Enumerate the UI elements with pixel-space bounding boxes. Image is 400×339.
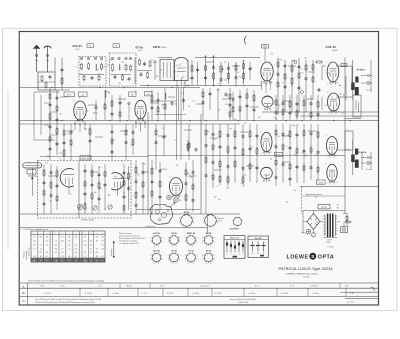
svg-text:1k: 1k [97, 212, 99, 214]
svg-text:C 30 25µ: C 30 25µ [312, 293, 319, 295]
svg-text:Abgleich ZF: Abgleich ZF [230, 237, 239, 240]
svg-text:Neu ein: Neu ein [366, 169, 371, 171]
svg-text:a: a [371, 291, 372, 293]
svg-text:9: 9 [196, 259, 197, 261]
svg-text:3: 3 [150, 255, 151, 257]
speaker terminals ATR 636 A [357, 151, 373, 171]
label box F2 [113, 44, 120, 47]
svg-text:1 T 32234: 1 T 32234 [327, 247, 334, 249]
V6 anode wire to OT [322, 97, 352, 110]
oscillator section x134-200 y160-214 [135, 160, 195, 214]
EM80 pin wires [177, 81, 185, 121]
svg-text:50µ: 50µ [187, 173, 190, 175]
svg-text:8µ: 8µ [183, 77, 185, 79]
svg-text:PATRICIA-LUXUS Type 32234: PATRICIA-LUXUS Type 32234 [279, 267, 333, 271]
left component chain R10 C12 [44, 88, 59, 160]
AF coupling x240-258 y90-120 [239, 88, 256, 120]
svg-text:0,25: 0,25 [327, 72, 330, 74]
svg-text:50µ: 50µ [218, 199, 221, 201]
svg-text:0,25: 0,25 [225, 104, 228, 106]
svg-text:100p: 100p [224, 80, 228, 82]
svg-text:4,7n: 4,7n [130, 144, 133, 146]
svg-text:2,2k: 2,2k [67, 134, 70, 136]
svg-text:220: 220 [214, 197, 217, 199]
svg-text:220: 220 [134, 91, 137, 93]
svg-text:V 25 0,1 µF: V 25 0,1 µF [200, 286, 209, 288]
tube socket bottom view EZ 80 [202, 251, 215, 266]
svg-text:6: 6 [213, 227, 214, 229]
svg-text:3: 3 [168, 255, 169, 257]
svg-text:4: 4 [206, 263, 207, 265]
svg-text:Gehäuse Rückwand Knöpfe: Gehäuse Rückwand Knöpfe Skala [230, 299, 256, 301]
svg-text:Abgl. AM: Abgl. AM [255, 237, 262, 240]
svg-text:1k: 1k [343, 94, 345, 96]
svg-text:ECC 85: ECC 85 [153, 251, 160, 253]
svg-text:1n: 1n [273, 117, 275, 119]
svg-text:12k: 12k [341, 112, 344, 114]
svg-text:9: 9 [196, 242, 197, 244]
svg-text:70p: 70p [234, 119, 237, 121]
svg-text:2,2k: 2,2k [190, 177, 193, 179]
long vertical x362 [361, 152, 363, 170]
svg-text:Ströme mA: Ströme mA [28, 247, 31, 256]
volume potentiometer P1 [220, 62, 224, 84]
tube V8 EL84 right lower [327, 164, 337, 183]
svg-text:1: 1 [168, 259, 169, 261]
svg-text:3: 3 [185, 237, 186, 239]
output transformer OT2 [338, 140, 359, 175]
svg-text:86: 86 [68, 241, 70, 243]
FM dipole antenna [44, 46, 51, 72]
detector diode loads x203-232 y88-120 [202, 88, 235, 120]
svg-text:0,7: 0,7 [84, 252, 86, 254]
svg-text:9: 9 [193, 223, 194, 225]
svg-text:C 20 10n: C 20 10n [248, 293, 255, 295]
svg-text:4,7n: 4,7n [207, 131, 210, 133]
antenna input box [38, 72, 55, 90]
svg-text:560: 560 [305, 156, 308, 158]
svg-text:9: 9 [214, 242, 215, 244]
svg-text:0,7: 0,7 [61, 248, 63, 250]
svg-text:3: 3 [179, 217, 180, 219]
svg-text:47k: 47k [174, 140, 177, 142]
tube socket bottom view EABC 80 [185, 232, 198, 248]
wire vertical x55 [54, 58, 56, 73]
V3 top cap wire [259, 48, 273, 62]
label box F1 [87, 44, 94, 47]
svg-text:1,2: 1,2 [61, 237, 63, 239]
svg-text:215: 215 [39, 252, 42, 254]
svg-text:gez. 4.60: gez. 4.60 [347, 302, 354, 304]
svg-text:0,1: 0,1 [104, 209, 106, 211]
tube socket bottom view EL 84 [168, 250, 181, 266]
svg-text:0,25: 0,25 [250, 147, 253, 149]
svg-text:86: 86 [68, 256, 70, 258]
short connector links [48, 62, 316, 178]
dial cord arc [244, 36, 246, 45]
svg-text:50µ: 50µ [59, 153, 62, 155]
label box 0.54 [79, 92, 88, 97]
svg-text:1: 1 [202, 259, 203, 261]
label box ECC 85 [80, 156, 91, 160]
power rail y210.5 [303, 210, 345, 212]
svg-text:86: 86 [75, 252, 77, 254]
svg-text:EC92: EC92 [276, 155, 281, 157]
svg-text:5n: 5n [76, 67, 78, 69]
svg-text:7: 7 [196, 237, 197, 239]
svg-text:0,7: 0,7 [75, 256, 77, 258]
svg-text:560: 560 [176, 165, 179, 167]
svg-text:47k: 47k [109, 60, 112, 62]
coupling network C7 R5 [135, 58, 156, 85]
F2 trimmer capacitors [111, 57, 131, 59]
svg-text:30p: 30p [301, 232, 304, 234]
svg-text:NT52: NT52 [319, 182, 323, 184]
svg-text:T 32234 1: T 32234 1 [303, 276, 310, 278]
IF transformer dashed box F1 [79, 57, 106, 87]
svg-text:F1: F1 [89, 45, 91, 47]
anode load resistors right of V3 [277, 58, 287, 116]
svg-text:25p: 25p [294, 154, 297, 156]
label box D1 [341, 64, 347, 67]
svg-text:7: 7 [214, 255, 215, 257]
tube V12 ECC85 FM half [60, 169, 74, 193]
phase splitter parts x292-308 [291, 58, 308, 112]
tuner components col2 [84, 164, 107, 214]
svg-text:86: 86 [46, 237, 48, 239]
label box NT 52 SB [318, 205, 330, 209]
row B content [44, 288, 354, 296]
svg-text:6: 6 [193, 263, 194, 265]
svg-text:215: 215 [61, 256, 64, 258]
tuner components col3 [123, 164, 131, 214]
svg-text:6: 6 [189, 227, 190, 229]
svg-text:7: 7 [179, 237, 180, 239]
svg-text:1 Stk: 1 Stk [40, 285, 44, 288]
svg-text:ECH 81: ECH 81 [153, 233, 160, 235]
svg-text:215: 215 [55, 244, 58, 246]
AGC arrows [205, 56, 215, 61]
svg-text:1: 1 [179, 223, 180, 225]
scan wash [19, 31, 379, 305]
tube socket bottom view ECC 85 [150, 251, 163, 266]
mid right chains x276-318 y95-120 [275, 95, 320, 120]
svg-text:215: 215 [101, 248, 104, 250]
svg-text:9: 9 [214, 259, 215, 261]
svg-text:0,1: 0,1 [182, 93, 184, 95]
svg-text:70p: 70p [94, 192, 97, 194]
speaker matching box lower [345, 131, 353, 150]
table footer labels dark [33, 259, 104, 262]
svg-text:Netztrafo-Anschlüsse: Netztrafo-Anschlüsse [306, 193, 322, 196]
detector column R21 [204, 60, 207, 86]
svg-text:3: 3 [202, 237, 203, 239]
svg-text:215: 215 [33, 241, 36, 243]
V3 pin circles [261, 82, 272, 93]
long vertical feed x237 [236, 58, 238, 131]
svg-text:8µ: 8µ [165, 205, 167, 207]
svg-text:3: 3 [150, 237, 151, 239]
svg-text:Skala: Skala [218, 220, 222, 222]
svg-text:30p: 30p [86, 111, 89, 113]
svg-text:Alle Spannungen: Alle Spannungen [119, 232, 132, 235]
svg-text:M1400: M1400 [93, 113, 98, 115]
svg-text:OPTA: OPTA [318, 254, 334, 260]
electrolytic capacitors C90 C91 [306, 229, 315, 237]
AM antenna [33, 45, 40, 72]
svg-text:2,2k: 2,2k [304, 58, 307, 60]
svg-text:70p: 70p [286, 202, 289, 204]
label box NT 52 [317, 180, 326, 184]
svg-text:4,7n: 4,7n [293, 190, 296, 192]
svg-text:3: 3 [168, 237, 169, 239]
svg-text:S 12: S 12 [255, 286, 259, 288]
svg-text:86: 86 [90, 244, 92, 246]
svg-text:R 30: R 30 [350, 293, 354, 295]
svg-text:250: 250 [271, 54, 274, 56]
svg-text:25p: 25p [315, 196, 318, 198]
svg-text:0,7: 0,7 [46, 256, 48, 258]
svg-text:1,2: 1,2 [33, 237, 35, 239]
svg-text:25p: 25p [284, 86, 287, 88]
svg-text:C 7 5n: C 7 5n [142, 293, 147, 295]
IF transformer dashed box F2 [110, 53, 137, 86]
wire rail y156.5 left half [40, 156, 148, 158]
tube socket bottom view ECH 81 [150, 233, 163, 248]
svg-text:215: 215 [84, 244, 87, 246]
speaker matching box upper [345, 95, 361, 119]
svg-text:215: 215 [90, 241, 93, 243]
svg-text:EF 89: EF 89 [171, 233, 176, 235]
mid left chains below rail y128-160 x64-140 [63, 124, 135, 160]
svg-text:1n: 1n [119, 69, 121, 71]
schematic border frame [19, 32, 378, 306]
svg-text:5n: 5n [305, 153, 307, 155]
svg-text:R 15 1M: R 15 1M [215, 293, 222, 295]
wire rail y227.5 [20, 227, 207, 229]
svg-text:220: 220 [275, 119, 278, 121]
svg-text:86: 86 [46, 252, 48, 254]
svg-text:100p: 100p [107, 194, 111, 196]
svg-text:30p: 30p [213, 139, 216, 141]
svg-text:gepr.: gepr. [345, 285, 349, 288]
voltage table [31, 231, 105, 262]
svg-text:47k: 47k [114, 176, 117, 178]
svg-text:4: 4 [154, 263, 155, 265]
svg-text:0,7: 0,7 [101, 256, 103, 258]
svg-text:ECC 85: ECC 85 [82, 158, 90, 160]
svg-text:4: 4 [154, 246, 155, 248]
svg-text:3: 3 [185, 255, 186, 257]
svg-text:9: 9 [162, 259, 163, 261]
svg-text:0,25: 0,25 [173, 71, 176, 73]
svg-text:10k: 10k [337, 205, 340, 207]
svg-text:12k: 12k [47, 156, 50, 158]
svg-text:70p: 70p [239, 76, 242, 78]
svg-text:215: 215 [75, 248, 78, 250]
svg-text:4: 4 [206, 246, 207, 248]
dial lamps [167, 195, 179, 202]
label box EC 92 [275, 153, 283, 157]
svg-text:86: 86 [34, 244, 36, 246]
svg-text:220: 220 [103, 67, 106, 69]
tube socket bottom view EL 84 [185, 250, 198, 266]
svg-text:3: 3 [203, 217, 204, 219]
detector column R22 [212, 60, 215, 86]
svg-text:560: 560 [160, 70, 163, 72]
svg-text:0,7: 0,7 [68, 244, 70, 246]
label box ZF1 [64, 92, 75, 97]
svg-text:30p: 30p [229, 128, 232, 130]
svg-text:8µ: 8µ [293, 60, 295, 62]
long vertical x345 [344, 58, 346, 215]
bottom right corner marks [340, 287, 379, 303]
IF out components x150-162 [151, 90, 160, 120]
svg-text:1: 1 [202, 242, 203, 244]
svg-text:9: 9 [179, 242, 180, 244]
power section label line [302, 193, 345, 196]
svg-text:5n: 5n [242, 81, 244, 83]
svg-text:4 × 8: 4 × 8 [290, 285, 294, 288]
svg-text:R 2 0,1M: R 2 0,1M [85, 293, 92, 295]
svg-text:2,2k: 2,2k [244, 175, 247, 177]
svg-text:30p: 30p [150, 59, 153, 61]
alignment box 1 Abgleich ZF [224, 228, 245, 259]
tube V9 ECH81 AM oscillator [170, 178, 183, 198]
svg-text:0,1: 0,1 [218, 83, 220, 85]
svg-text:6: 6 [193, 246, 194, 248]
svg-text:8µ: 8µ [316, 222, 318, 224]
svg-text:0,7: 0,7 [33, 248, 35, 250]
tuner inner dashed divider [78, 161, 80, 219]
svg-text:100p: 100p [292, 125, 296, 127]
right channel chains x276-320 y124-210 [275, 124, 320, 186]
svg-text:215: 215 [68, 237, 71, 239]
svg-text:2×EL 84: 2×EL 84 [326, 45, 337, 49]
svg-text:1,2: 1,2 [55, 241, 57, 243]
svg-text:2,2k: 2,2k [79, 74, 82, 76]
svg-text:1: 1 [185, 242, 186, 244]
tube socket bottom view [203, 214, 218, 229]
svg-text:1,2: 1,2 [101, 244, 103, 246]
svg-text:1,2: 1,2 [75, 244, 77, 246]
table header ticks [34, 233, 103, 235]
screen bypass network [119, 95, 122, 122]
svg-text:1,2: 1,2 [61, 252, 63, 254]
svg-text:4: 4 [183, 227, 184, 229]
junction dots on rails [51, 85, 350, 121]
svg-text:215: 215 [61, 241, 64, 243]
svg-text:1,2: 1,2 [46, 244, 48, 246]
AGC loop wires left [34, 92, 60, 140]
tone network R30 [243, 60, 252, 84]
svg-text:S: S [311, 254, 314, 259]
svg-text:560: 560 [336, 208, 339, 210]
svg-text:EM 80: EM 80 [184, 212, 189, 214]
svg-text:9: 9 [162, 242, 163, 244]
svg-text:C 100: C 100 [60, 286, 65, 288]
wire rail y116 right half [300, 115, 378, 117]
svg-text:4,7n: 4,7n [45, 163, 48, 165]
svg-text:Trafo 52/8 Drossel D5 Elko: Trafo 52/8 Drossel D5 Elko 50+50µF Poti … [35, 298, 102, 301]
ratio detector coils x163-200 [150, 88, 198, 160]
svg-text:25p: 25p [183, 83, 186, 85]
svg-text:Beim Ersatzteil auf die oben B: Beim Ersatzteil auf die oben Bezeichnung… [29, 279, 105, 282]
row A content [40, 283, 349, 288]
svg-text:1n: 1n [301, 69, 303, 71]
svg-text:10k: 10k [179, 200, 182, 202]
ferrite rod antenna [23, 163, 42, 196]
svg-text:4: 4 [188, 246, 189, 248]
svg-text:10k: 10k [98, 73, 101, 75]
svg-text:C 12 50µ: C 12 50µ [192, 293, 199, 295]
svg-text:0,7: 0,7 [90, 248, 92, 250]
svg-text:E-Satz 32234: E-Satz 32234 [238, 301, 248, 304]
wire top bus to EM80 [158, 57, 172, 59]
svg-text:215: 215 [33, 256, 36, 258]
svg-text:5n: 5n [122, 162, 124, 164]
coil L5 between tubes [104, 90, 106, 120]
svg-text:1n: 1n [307, 194, 309, 196]
svg-text:47k: 47k [120, 102, 123, 104]
svg-text:UKW-Box 6 M 52: UKW-Box 6 M 52 [81, 220, 94, 222]
neutralizing cap C15 [93, 100, 98, 120]
grid stopper R12 [111, 95, 114, 120]
svg-text:50 Hz: 50 Hz [326, 242, 330, 244]
svg-text:10k: 10k [192, 100, 195, 102]
label box F3 [129, 92, 137, 96]
antenna matching parts [55, 58, 70, 91]
svg-text:215: 215 [96, 237, 99, 239]
svg-text:1,2: 1,2 [90, 252, 92, 254]
svg-text:86: 86 [102, 237, 104, 239]
tuner components col1 [43, 164, 59, 214]
svg-text:0,25: 0,25 [69, 193, 72, 195]
svg-text:8µ: 8µ [188, 106, 190, 108]
tube V13 AM oscillator in tuner [111, 173, 124, 196]
svg-text:100p: 100p [226, 188, 230, 190]
tube socket bottom view EF 89 [168, 233, 181, 248]
svg-text:12k: 12k [161, 128, 164, 130]
chassis rear outline [145, 203, 175, 229]
svg-text:1,2: 1,2 [84, 256, 86, 258]
svg-text:R 22 56k: R 22 56k [281, 293, 288, 295]
coupling caps C30 [227, 62, 238, 84]
svg-text:EABC 80: EABC 80 [187, 232, 195, 235]
F1 trimmer capacitors [80, 57, 102, 59]
long vertical feed x201 [200, 114, 202, 214]
wire rail y112 right half [262, 111, 378, 113]
svg-text:86: 86 [75, 237, 77, 239]
LOEWE OPTA logo [287, 253, 335, 261]
svg-text:10k: 10k [244, 122, 247, 124]
EM80 deflection box [160, 60, 174, 81]
tuner bottom trimmers [77, 204, 112, 210]
svg-text:4,7n: 4,7n [176, 65, 179, 67]
rotated arrow label right of table [111, 241, 114, 258]
power wires [303, 210, 344, 238]
FM tuner dashed box [38, 161, 132, 219]
svg-text:560: 560 [161, 104, 164, 106]
svg-text:6: 6 [158, 246, 159, 248]
svg-text:0,1: 0,1 [331, 97, 333, 99]
svg-text:1k: 1k [217, 186, 219, 188]
svg-text:70p: 70p [339, 93, 342, 95]
svg-text:1: 1 [185, 259, 186, 261]
svg-text:4,7n: 4,7n [325, 105, 328, 107]
svg-text:1,2: 1,2 [84, 241, 86, 243]
svg-text:25p: 25p [137, 174, 140, 176]
